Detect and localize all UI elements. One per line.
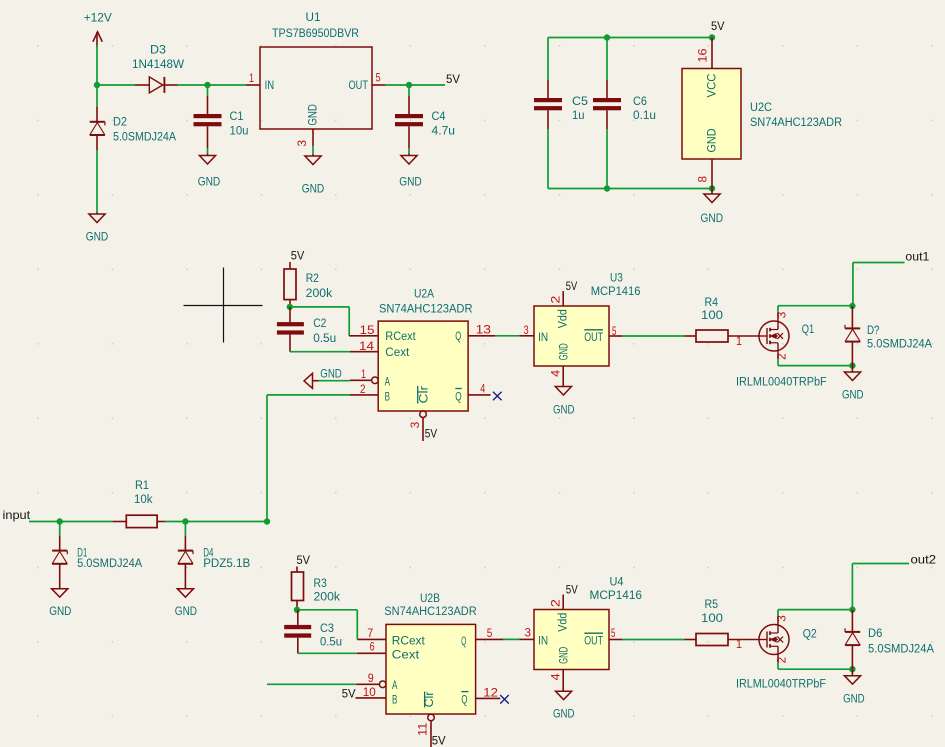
svg-text:B: B [392, 693, 397, 707]
pin 4 GND [562, 670, 564, 692]
wire [298, 652, 357, 654]
svg-text:3: 3 [525, 626, 532, 640]
ic U4 [534, 610, 609, 670]
pin 3 [312, 129, 314, 146]
wire [777, 610, 779, 616]
capacitor C5 [547, 38, 549, 81]
wire [290, 351, 350, 353]
wire [207, 148, 209, 154]
ic U2C power unit [682, 69, 741, 160]
svg-text:IRLML0040TRPbF: IRLML0040TRPbF [736, 374, 827, 388]
svg-text:1: 1 [736, 637, 742, 651]
wire [777, 351, 779, 359]
pin 10 B [356, 697, 387, 699]
wire [777, 615, 779, 624]
svg-text:D6: D6 [868, 626, 882, 640]
svg-text:PDZ5.1B: PDZ5.1B [203, 556, 250, 570]
svg-text:Vdd: Vdd [556, 613, 570, 632]
resistor R1 [113, 521, 127, 523]
wire [778, 305, 852, 307]
pin 3 IN [520, 638, 535, 640]
wire [852, 563, 909, 565]
wire [266, 395, 268, 522]
svg-text:GND: GND [557, 343, 571, 360]
wire [96, 150, 98, 213]
junction [204, 82, 210, 88]
junction [849, 303, 855, 309]
svg-text:R1: R1 [135, 478, 149, 492]
svg-text:A: A [392, 678, 398, 692]
wire [777, 312, 779, 321]
svg-text:R3: R3 [314, 576, 327, 590]
svg-text:0.1u: 0.1u [633, 108, 656, 122]
wire [853, 262, 905, 264]
wire [290, 306, 349, 308]
svg-text:12: 12 [483, 686, 498, 700]
svg-text:OUT: OUT [584, 330, 603, 344]
junction [709, 34, 715, 40]
svg-text:4: 4 [548, 370, 562, 377]
wire [96, 85, 98, 107]
ground [207, 154, 209, 156]
svg-text:3: 3 [775, 615, 789, 622]
svg-text:8: 8 [695, 176, 709, 183]
pin 3 Clr [420, 411, 427, 418]
svg-text:10: 10 [363, 685, 376, 699]
wire [348, 307, 350, 336]
svg-text:5V: 5V [297, 553, 311, 567]
svg-text:5: 5 [376, 70, 381, 84]
wire [178, 84, 246, 86]
pin 6 [357, 652, 386, 654]
crosshair [184, 305, 263, 307]
ic U2A [378, 321, 468, 411]
power +12V [96, 32, 98, 47]
capacitor C1 [207, 85, 209, 96]
wire [778, 668, 852, 670]
wire [297, 609, 357, 611]
svg-text:Cext: Cext [392, 648, 420, 662]
svg-text:Cext: Cext [385, 345, 410, 359]
svg-text:SN74AHC123ADR: SN74AHC123ADR [384, 604, 477, 618]
diode D1 [59, 522, 61, 536]
svg-text:11: 11 [416, 722, 430, 736]
ground [711, 189, 713, 195]
diode D2 [96, 107, 98, 123]
ic U2B [386, 624, 476, 714]
pin 13 Q [468, 335, 495, 337]
wire [778, 609, 852, 611]
svg-text:input: input [3, 508, 31, 522]
wire [622, 335, 684, 337]
wire [548, 188, 712, 190]
svg-text:100: 100 [701, 308, 723, 322]
svg-text:+12V: +12V [84, 11, 113, 25]
svg-text:5V: 5V [566, 583, 578, 597]
svg-text:Vdd: Vdd [556, 309, 570, 328]
svg-text:U2B: U2B [420, 591, 440, 605]
wire [495, 335, 520, 337]
svg-text:5: 5 [612, 324, 617, 338]
svg-text:2: 2 [549, 295, 563, 303]
svg-text:3: 3 [524, 323, 529, 337]
wire [606, 129, 608, 189]
pin 3 IN [520, 335, 535, 337]
pin 1 A [350, 379, 372, 381]
transistor Q1 [759, 321, 789, 351]
svg-text:GND: GND [553, 402, 575, 416]
svg-text:B: B [385, 390, 390, 404]
svg-text:D3: D3 [150, 43, 166, 57]
wire [548, 37, 712, 39]
wire [385, 84, 445, 86]
svg-text:1: 1 [361, 367, 366, 381]
capacitor C3 [297, 610, 299, 625]
svg-text:0.5u: 0.5u [313, 331, 336, 345]
capacitor C2 [289, 307, 291, 322]
wire [778, 365, 852, 367]
svg-text:Clr: Clr [416, 386, 430, 404]
svg-text:C4: C4 [432, 109, 446, 123]
svg-text:C6: C6 [633, 94, 647, 108]
svg-text:out1: out1 [905, 250, 929, 264]
svg-text:C5: C5 [572, 94, 588, 108]
pin 16 [711, 38, 713, 69]
pin 11 Clr [428, 714, 435, 721]
pin 4 GND [562, 366, 564, 387]
wire [267, 394, 350, 396]
svg-text:5: 5 [611, 626, 616, 640]
svg-text:SN74AHC123ADR: SN74AHC123ADR [379, 301, 473, 315]
wire [777, 662, 779, 669]
pin 8 [711, 159, 713, 189]
svg-text:2: 2 [360, 382, 366, 396]
svg-text:5V: 5V [446, 72, 460, 86]
wire [312, 146, 314, 154]
svg-text:C2: C2 [313, 316, 326, 330]
svg-text:2: 2 [775, 657, 789, 664]
svg-text:5V: 5V [342, 687, 356, 701]
svg-text:9: 9 [368, 671, 374, 685]
svg-text:GND: GND [320, 366, 342, 380]
svg-text:200k: 200k [314, 589, 341, 603]
resistor R2 [289, 262, 291, 269]
transistor Q2 [759, 625, 789, 655]
junction [294, 607, 300, 613]
svg-text:OUT: OUT [584, 634, 603, 648]
pin 5 OUT [609, 335, 622, 337]
svg-text:1: 1 [736, 334, 742, 348]
svg-text:5V: 5V [432, 734, 446, 747]
junction [287, 304, 293, 310]
junction [604, 34, 610, 40]
svg-text:3: 3 [408, 422, 422, 429]
pin 14 [350, 351, 378, 353]
wire [777, 306, 779, 312]
svg-text:4: 4 [480, 382, 485, 396]
svg-text:5V: 5V [566, 279, 577, 293]
ground [851, 669, 853, 676]
ground [52, 589, 68, 598]
regulator U1 [260, 47, 372, 129]
svg-text:5.0SMDJ24A: 5.0SMDJ24A [113, 130, 177, 144]
svg-text:GND: GND [86, 230, 109, 244]
svg-text:U4: U4 [610, 574, 624, 588]
svg-text:16: 16 [695, 48, 709, 62]
no-connect [500, 695, 509, 704]
wire [503, 638, 520, 640]
svg-text:Q: Q [461, 634, 466, 648]
svg-text:Q: Q [455, 329, 461, 343]
svg-text:5V: 5V [711, 19, 725, 33]
wire [29, 521, 113, 523]
ground [408, 154, 410, 156]
wire [319, 380, 350, 382]
pin 9 A [356, 683, 379, 685]
svg-text:GND: GND [842, 388, 864, 402]
wire [851, 564, 853, 610]
svg-text:GND: GND [306, 104, 320, 126]
svg-text:IN: IN [265, 78, 275, 92]
svg-text:R2: R2 [306, 271, 319, 285]
junction [264, 518, 270, 524]
svg-text:IRLML0040TRPbF: IRLML0040TRPbF [736, 677, 826, 691]
svg-text:MCP1416: MCP1416 [591, 284, 641, 298]
junction [182, 518, 188, 524]
wire [165, 521, 267, 523]
svg-text:13: 13 [476, 323, 492, 337]
diode D3 [135, 84, 149, 86]
pin 1 [246, 84, 260, 86]
svg-text:5V: 5V [425, 426, 437, 440]
diode D4 [184, 522, 186, 536]
ground [96, 213, 98, 215]
capacitor C6 [606, 38, 608, 81]
svg-text:IN: IN [538, 330, 548, 344]
ground [312, 154, 314, 156]
svg-text:4: 4 [548, 673, 562, 680]
pin 2 Vdd [562, 595, 564, 610]
svg-text:U1: U1 [306, 10, 321, 24]
resistor R4 [685, 335, 697, 337]
junction [604, 185, 610, 191]
svg-text:GND: GND [843, 691, 865, 705]
ground [556, 691, 572, 700]
ground [555, 387, 571, 396]
svg-text:5.0SMDJ24A: 5.0SMDJ24A [77, 556, 143, 570]
svg-text:out2: out2 [911, 552, 937, 566]
svg-text:MCP1416: MCP1416 [590, 588, 643, 602]
wire [97, 84, 135, 86]
ground [177, 589, 193, 598]
svg-text:GND: GND [557, 647, 571, 664]
junction [849, 362, 855, 368]
svg-text:GND: GND [302, 181, 325, 195]
diode D6 [851, 610, 853, 632]
junction [849, 606, 855, 612]
svg-text:100: 100 [701, 611, 723, 625]
svg-text:10u: 10u [230, 123, 249, 137]
svg-text:OUT: OUT [349, 78, 369, 92]
svg-text:GND: GND [175, 604, 197, 618]
svg-text:Q2: Q2 [803, 627, 817, 641]
pin 4 Qbar [468, 394, 491, 396]
svg-text:2: 2 [775, 353, 789, 360]
wire [96, 45, 98, 85]
svg-text:7: 7 [367, 626, 373, 640]
svg-text:5: 5 [487, 626, 493, 640]
pin 5 [372, 84, 385, 86]
svg-text:200k: 200k [306, 286, 333, 300]
wire [622, 639, 684, 641]
svg-text:2: 2 [549, 599, 563, 607]
svg-text:D?: D? [867, 323, 880, 337]
svg-text:14: 14 [359, 339, 374, 353]
svg-text:RCext: RCext [385, 329, 416, 343]
svg-text:GND: GND [198, 175, 221, 189]
pin 2 Vdd [562, 291, 564, 306]
svg-text:C3: C3 [320, 621, 334, 635]
junction [709, 185, 715, 191]
svg-text:5.0SMDJ24A: 5.0SMDJ24A [867, 336, 933, 350]
wire [852, 263, 854, 306]
pin 7 [357, 638, 386, 640]
svg-text:5.0SMDJ24A: 5.0SMDJ24A [868, 641, 935, 655]
svg-text:10k: 10k [134, 492, 153, 506]
ground GND left [304, 373, 313, 388]
svg-text:U3: U3 [610, 270, 623, 284]
svg-text:RCext: RCext [392, 634, 426, 648]
junction [406, 82, 412, 88]
pin 5 OUT [609, 639, 622, 641]
ground [851, 366, 853, 372]
svg-text:R4: R4 [705, 295, 719, 309]
pin 5 Q [476, 638, 503, 640]
svg-text:D2: D2 [113, 115, 127, 129]
junction [94, 82, 100, 88]
svg-text:15: 15 [360, 323, 375, 337]
svg-text:Q: Q [461, 693, 467, 707]
resistor R5 [685, 639, 697, 641]
svg-text:R5: R5 [705, 597, 719, 611]
svg-text:C1: C1 [230, 109, 244, 123]
svg-text:U2C: U2C [750, 100, 772, 114]
svg-text:GND: GND [399, 175, 422, 189]
resistor R3 [296, 567, 298, 573]
svg-text:GND: GND [705, 128, 719, 152]
svg-text:Q: Q [455, 390, 461, 404]
junction [57, 518, 63, 524]
diode D? [851, 306, 853, 328]
svg-text:3: 3 [775, 311, 789, 318]
wire [356, 610, 358, 640]
svg-text:4.7u: 4.7u [432, 123, 456, 137]
svg-text:TPS7B6950DBVR: TPS7B6950DBVR [272, 26, 359, 40]
ic U3 [534, 306, 609, 366]
svg-text:1: 1 [249, 71, 254, 85]
wire [267, 683, 356, 685]
wire [408, 148, 410, 154]
svg-text:A: A [385, 375, 391, 389]
svg-text:GND: GND [49, 604, 71, 618]
pin 15 [349, 335, 378, 337]
svg-text:5V: 5V [291, 249, 305, 263]
pin 2 B [350, 394, 378, 396]
svg-text:VCC: VCC [705, 73, 719, 97]
svg-text:1u: 1u [572, 108, 585, 122]
svg-text:6: 6 [370, 640, 375, 654]
svg-text:1N4148W: 1N4148W [132, 57, 184, 71]
svg-text:3: 3 [295, 140, 309, 147]
svg-text:Q1: Q1 [802, 322, 815, 336]
svg-text:IN: IN [538, 634, 548, 648]
svg-text:0.5u: 0.5u [320, 635, 342, 649]
pin 12 Qbar [476, 697, 501, 699]
svg-text:GND: GND [553, 707, 575, 721]
junction [849, 666, 855, 672]
wire [777, 359, 779, 366]
wire [547, 129, 549, 189]
wire [777, 655, 779, 663]
svg-text:SN74AHC123ADR: SN74AHC123ADR [750, 115, 842, 129]
capacitor C4 [408, 85, 410, 96]
no-connect [493, 392, 502, 401]
svg-text:U2A: U2A [414, 286, 435, 300]
svg-text:GND: GND [701, 211, 724, 225]
